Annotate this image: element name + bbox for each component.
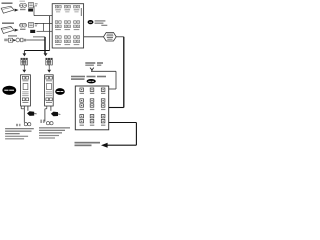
wire mixer to cable label — [84, 36, 104, 38]
bus wire left thick — [44, 37, 46, 54]
receiver column 1 antenna cluster — [21, 58, 28, 65]
panel jack r1c1 — [80, 88, 84, 94]
wire device2 lower to mixer — [37, 30, 53, 32]
device 3 icon — [9, 38, 13, 42]
mixer jack group r2c2 — [64, 21, 70, 30]
wire device3 to bus — [26, 39, 45, 41]
label text device 2 — [2, 22, 14, 24]
receiver column 2 antenna cluster — [46, 58, 53, 65]
bottom arrow head — [101, 143, 108, 148]
down arrow into receiver 2 — [47, 65, 51, 73]
text beside oval logo — [95, 20, 106, 24]
wire device2 down branch — [33, 36, 45, 38]
bottom note text — [75, 142, 101, 146]
jack plug receiver 2 — [51, 112, 61, 117]
panel jack r3c3 — [101, 115, 105, 126]
wireless arrow to cluster 2 — [44, 53, 48, 56]
arrow from device 2 — [15, 29, 19, 32]
wire panel to bottom loop — [109, 107, 124, 109]
mixer box U1 — [52, 4, 83, 48]
oval logo receiver 2 — [55, 88, 65, 95]
arrow from device 1 — [15, 9, 19, 12]
plug icons text column 1 — [16, 123, 31, 127]
wire panel lower exit — [109, 122, 137, 124]
mixer jack group r3c1 — [55, 36, 61, 45]
panel jack r2c2 — [90, 99, 94, 110]
bus wire horizontal to receivers — [24, 50, 49, 52]
keyboard device 1 — [1, 6, 14, 13]
mixer jack group r3c3 — [74, 36, 80, 45]
text above right jog — [85, 62, 103, 66]
receiver box 1 — [21, 75, 31, 106]
text above patch panel — [71, 76, 106, 80]
caption text column 1 — [5, 128, 34, 139]
small mark right — [101, 25, 107, 26]
label text device 1 — [2, 1, 26, 4]
mixer jack group r1c1 — [55, 5, 61, 12]
wire device1 to mixer — [34, 6, 52, 16]
down arrow into receiver 1 — [22, 65, 26, 73]
drop wire to receiver 1 — [23, 51, 25, 54]
receiver box 2 — [45, 75, 54, 106]
panel jack r2c3 — [101, 99, 105, 110]
panel jack r3c1 — [80, 115, 84, 126]
wire panel row1 to jog — [105, 88, 117, 90]
adapter connector 1 — [29, 3, 34, 8]
panel jack r1c3 — [101, 88, 105, 94]
jack symbol at jog start — [90, 68, 94, 72]
caption text column 2 — [39, 127, 70, 138]
jack plug receiver 1 — [27, 111, 37, 116]
wires below receiver 2 — [45, 106, 51, 122]
bottom horizontal wire — [107, 144, 136, 146]
bottom right vertical wire — [135, 123, 137, 146]
cable label hexagon — [104, 33, 117, 42]
oval logo top right — [88, 20, 94, 24]
wire cable label to right bus — [116, 36, 124, 38]
mixer jack group r2c3 — [74, 21, 80, 30]
panel jack r1c2 — [90, 88, 94, 94]
label right of adapter 2 — [35, 23, 38, 26]
plug icons text column 2 — [40, 120, 53, 125]
panel jack r2c1 — [80, 99, 84, 110]
adapter connector 2 — [29, 23, 34, 28]
mixer jack group r3c2 — [64, 36, 70, 45]
oval logo above panel — [87, 79, 96, 83]
right vertical bus wire — [123, 37, 125, 108]
label right of adapter 1 — [35, 3, 38, 6]
arrow from device 3 — [13, 39, 16, 42]
wire device2 upper to mixer — [35, 23, 53, 31]
bus wire vertical mid — [49, 16, 51, 51]
mixer jack group r1c3 — [74, 5, 80, 12]
wires below receiver 1 — [21, 106, 28, 123]
wire jog to patch panel col3 — [91, 71, 116, 89]
keyboard device 2 — [1, 26, 14, 33]
device 3 label — [8, 35, 17, 36]
black label device 2 — [30, 30, 35, 33]
MIDI DIN connector pair 2 — [20, 23, 27, 30]
mixer jack group r2c1 — [55, 21, 61, 30]
patch panel box — [75, 86, 108, 130]
mixer vertical label — [81, 8, 82, 16]
wireless arrow to cluster 1 — [23, 53, 27, 56]
MIDI DIN connector pair 1 — [20, 4, 27, 11]
oval logo receiver 1 — [2, 86, 16, 95]
panel jack r3c2 — [90, 115, 94, 126]
connector device 3 — [4, 38, 26, 42]
mixer jack group r1c2 — [64, 5, 70, 12]
black label device 1 — [28, 9, 33, 12]
